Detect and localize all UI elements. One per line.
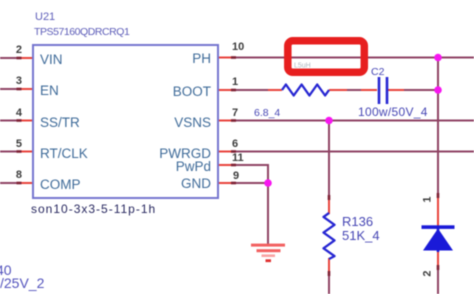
svg-text:L5uH: L5uH [294, 63, 311, 70]
